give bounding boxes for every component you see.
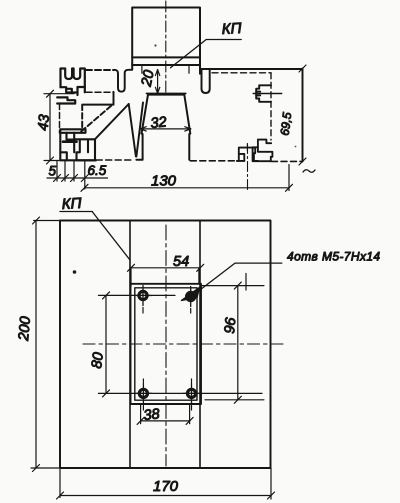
dimension 80 <box>98 292 262 397</box>
plate outer rect <box>131 284 202 404</box>
hole top-left <box>135 286 152 314</box>
dimension 54 <box>128 264 204 286</box>
dimension 5 and 6.5 extension lines <box>47 161 108 189</box>
flange top edge right solid <box>200 68 303 70</box>
svg-text:130: 130 <box>151 173 177 190</box>
svg-text:38: 38 <box>143 406 161 424</box>
hidden dashed chamber vertical <box>270 73 272 140</box>
svg-text:200: 200 <box>16 316 34 343</box>
bottom edge dashed left <box>96 159 134 161</box>
leader arrowhead <box>182 288 200 301</box>
channel line left <box>129 221 131 469</box>
vertical centerline <box>165 225 167 466</box>
outer rectangle <box>60 221 271 469</box>
center foot <box>237 144 258 161</box>
bottom left F-block <box>60 129 85 160</box>
svg-text:32: 32 <box>150 114 168 132</box>
V groove <box>129 103 143 157</box>
hole top-right with leader arrow <box>187 287 195 314</box>
dimension 96 <box>202 282 264 403</box>
upper right T-slot <box>253 85 282 102</box>
svg-text:4отв М5-7Нх14: 4отв М5-7Нх14 <box>287 250 381 264</box>
hook below comb <box>57 97 75 103</box>
dimension 130 <box>81 165 293 192</box>
bottom edge dashed center <box>190 160 238 162</box>
bottom edge dashed right <box>272 160 303 162</box>
squiggle break mark <box>303 170 315 173</box>
stray extension tick near 96 <box>245 274 247 291</box>
svg-text:80: 80 <box>89 352 107 370</box>
centerline of clamp block <box>165 1 167 95</box>
dimension 43 <box>44 90 74 164</box>
flange bottom line above trapezoid <box>146 92 185 94</box>
right edge of profile (69.5 dim line) <box>299 65 306 165</box>
hole bottom-left <box>135 379 152 410</box>
leader 4otv <box>196 263 282 293</box>
dashed flange bottom left <box>86 91 114 93</box>
lower right C-block <box>253 140 273 162</box>
channel line right <box>199 221 201 469</box>
svg-text:96: 96 <box>222 316 239 334</box>
slot U1 in flange top <box>115 70 132 92</box>
clamp block KP (top rectangle) <box>132 8 200 74</box>
svg-text:КП: КП <box>61 195 82 213</box>
left dashed vertical edge <box>59 104 61 134</box>
label KP (plan) leader <box>60 212 130 261</box>
svg-text:КП: КП <box>221 20 242 38</box>
dimension 200 <box>31 217 60 472</box>
svg-text:54: 54 <box>173 254 189 270</box>
svg-text:69,5: 69,5 <box>278 111 295 136</box>
svg-text:43: 43 <box>36 114 53 131</box>
dimension 20 <box>155 70 159 94</box>
dimension 32 <box>140 127 191 131</box>
center foot centerline <box>247 144 249 191</box>
hole bottom-right <box>183 379 200 410</box>
svg-text:170: 170 <box>153 478 179 495</box>
svg-text:6.5: 6.5 <box>88 163 107 178</box>
trapezoid foot 32 <box>136 95 190 160</box>
hidden dashed line under right flange <box>212 72 271 74</box>
slot U2 narrow deep slot <box>202 69 210 93</box>
flange top edge left dashed <box>86 69 114 71</box>
ink speck top <box>154 44 156 46</box>
svg-text:5: 5 <box>49 164 57 179</box>
comb block top left <box>61 69 85 96</box>
label KP (top) leader <box>171 40 242 68</box>
ink dot speck <box>73 270 77 274</box>
tick marks on flange line <box>142 66 189 73</box>
dimension 170 <box>57 468 275 499</box>
dimension 38 <box>137 404 193 424</box>
plate inner rect <box>135 288 197 400</box>
bottom left T-foot <box>60 139 96 160</box>
horizontal centerline <box>83 343 284 345</box>
step and web structure <box>81 92 129 139</box>
